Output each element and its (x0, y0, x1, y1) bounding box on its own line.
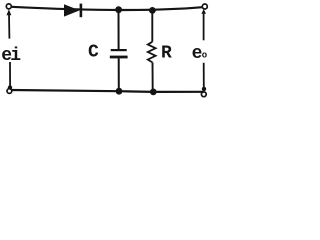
svg-text:o: o (202, 51, 207, 61)
svg-text:ei: ei (1, 46, 21, 66)
junction node top capacitor tap (115, 6, 122, 13)
wire right lower stub (203, 63, 205, 88)
wire capacitor bottom lead (118, 58, 120, 91)
arrowhead up on input lead (7, 9, 12, 15)
wire capacitor top lead (118, 10, 120, 49)
wire resistor top lead (151, 11, 153, 42)
arrowhead up on output lead (201, 9, 206, 14)
wire bottom rail (11, 90, 204, 92)
svg-text:C: C (88, 43, 99, 63)
capacitor C top plate (111, 49, 127, 51)
terminal circle top-left (input +) (6, 4, 11, 9)
svg-text:R: R (161, 43, 172, 63)
junction node top resistor tap (149, 7, 156, 14)
capacitor C bottom plate (110, 56, 128, 59)
wire right upper stub (203, 13, 205, 40)
wire resistor bottom lead (152, 62, 154, 92)
resistor R zigzag (148, 42, 156, 63)
wire left upper stub (ei lead) (8, 14, 10, 39)
diode D1 cathode bar (80, 4, 83, 18)
svg-text:e: e (192, 44, 203, 64)
wire top rail (11, 7, 202, 10)
junction node bottom resistor tap (150, 89, 157, 96)
terminal circle top-right (output +) (202, 4, 207, 9)
junction dot bottom-left (8, 85, 12, 89)
terminal circle bottom-left (7, 89, 12, 94)
junction node bottom capacitor tap (116, 88, 123, 95)
junction dot bottom-right (202, 87, 206, 91)
diode D1 anode triangle (64, 4, 80, 16)
wire left lower stub (9, 62, 11, 87)
terminal circle bottom-right (201, 92, 206, 97)
